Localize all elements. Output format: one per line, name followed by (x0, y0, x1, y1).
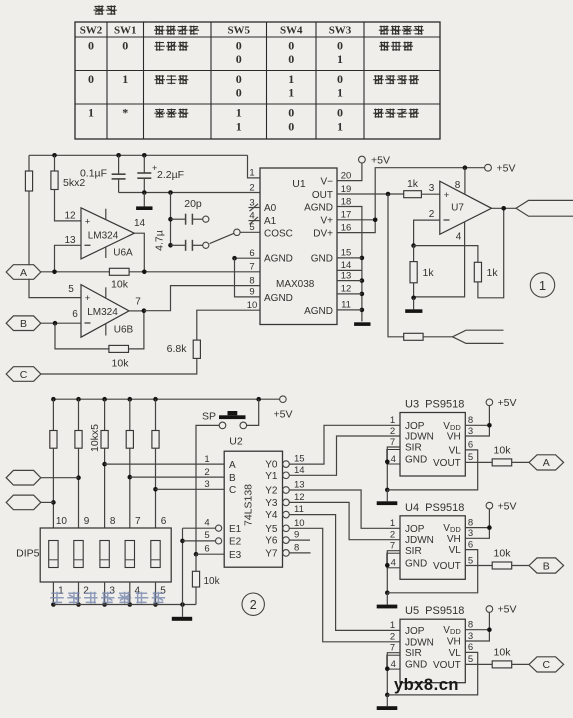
wire lower ground rail (53, 602, 196, 607)
svg-text:DV+: DV+ (313, 228, 333, 239)
resistor 10k (U3 output) (492, 444, 512, 466)
svg-text:VDD: VDD (443, 421, 461, 432)
input connector (blank, lower) (6, 495, 53, 510)
svg-text:18: 18 (341, 196, 352, 207)
svg-text:0: 0 (88, 72, 94, 86)
resistor R11 (10kx5 group) (75, 399, 82, 528)
U4 pin 1 number (390, 518, 395, 529)
svg-text:19: 19 (341, 184, 352, 195)
svg-text:SW1: SW1 (114, 25, 137, 37)
U1 pin 1 number (249, 168, 254, 179)
svg-text:VDD: VDD (443, 523, 461, 534)
svg-text:5: 5 (204, 530, 209, 541)
svg-text:2: 2 (204, 467, 209, 478)
svg-text:6: 6 (72, 309, 78, 320)
U1 pin 12 number (341, 284, 352, 295)
svg-text:14: 14 (294, 465, 305, 476)
svg-text:4: 4 (391, 558, 396, 569)
truth table grid (75, 22, 440, 139)
U5 pin 8 number (468, 620, 473, 631)
U4 pin 6 number (468, 539, 473, 550)
wire U1 pin 18 / ground bus (337, 207, 364, 322)
svg-text:0: 0 (337, 72, 343, 86)
svg-text:1k: 1k (407, 178, 419, 190)
svg-text:8: 8 (468, 415, 473, 426)
U1 pin 3 stub (249, 204, 261, 211)
svg-text:SW5: SW5 (227, 25, 250, 37)
svg-text:VL: VL (449, 545, 462, 556)
svg-text:JDWN: JDWN (405, 637, 434, 648)
svg-text:SW3: SW3 (329, 25, 352, 37)
wire U4 VDD,VH to +5V (465, 509, 491, 538)
U2 pin 3 number (204, 479, 209, 490)
U2 pin 15 number (294, 454, 305, 465)
capacitor C4 4.7µ (154, 230, 209, 251)
svg-text:1: 1 (337, 120, 343, 134)
svg-text:A1: A1 (264, 216, 277, 227)
power terminal +5V (U4) (486, 500, 516, 512)
DIP pin 9 number (84, 516, 90, 527)
wire 10k to connector B (512, 565, 529, 567)
svg-text:7: 7 (135, 516, 141, 527)
svg-text:1: 1 (539, 278, 546, 293)
svg-text:14: 14 (134, 218, 146, 229)
svg-text:E3: E3 (229, 550, 242, 561)
U4 pin 8 number (468, 517, 473, 528)
svg-text:3: 3 (429, 183, 435, 194)
svg-text:VL: VL (449, 648, 462, 659)
wire U1 pin 6 AGND tie to pin 9 (232, 256, 260, 297)
svg-text:GND: GND (311, 254, 333, 265)
svg-text:1: 1 (58, 586, 64, 597)
wire U1 pin 14 stub (337, 269, 362, 271)
svg-text:Y4: Y4 (265, 510, 278, 521)
U2 pin 1 number (204, 454, 209, 465)
wire rail2 to U1 pin 2 (119, 190, 260, 195)
svg-text:3: 3 (109, 586, 115, 597)
wire R5 to node C (41, 358, 197, 374)
svg-text:6: 6 (468, 539, 473, 550)
resistor 10k (U5 output) (492, 646, 512, 668)
svg-text:ybx8.cn: ybx8.cn (394, 676, 459, 694)
op-amp U6A LM324 (81, 208, 134, 259)
svg-text:7: 7 (390, 437, 395, 448)
IC U4 PS9518 (400, 516, 465, 580)
svg-text:AGND: AGND (304, 202, 333, 213)
svg-text:2: 2 (390, 530, 395, 541)
svg-text:SIR: SIR (405, 648, 422, 659)
label U6A (113, 248, 133, 259)
svg-text:6: 6 (468, 440, 473, 451)
label DIP5 (16, 548, 40, 560)
wire U3 SIR/GND tie (385, 447, 400, 492)
table title 附表 (94, 5, 117, 15)
wire node A feed line to U1 pin 7 (41, 270, 260, 275)
U1 pin 19 number (341, 184, 352, 195)
svg-text:U6A: U6A (113, 248, 133, 259)
svg-text:12: 12 (64, 210, 76, 221)
U5 pin 4 number (framed) (387, 655, 400, 670)
node circle 2 (242, 593, 264, 615)
resistor R3 10k (U6A feedback) (109, 268, 129, 290)
U4 pin 2 number (390, 530, 395, 541)
svg-text:+5V: +5V (498, 397, 517, 409)
svg-text:1: 1 (390, 620, 395, 631)
svg-text:2: 2 (390, 426, 395, 437)
svg-text:12: 12 (341, 284, 352, 295)
resistor R13 (10kx5 group) (126, 399, 133, 528)
svg-text:7: 7 (135, 297, 141, 308)
svg-text:A: A (543, 457, 550, 469)
svg-text:6.8k: 6.8k (167, 343, 188, 355)
IC U2 74LS138 (224, 451, 282, 567)
svg-text:V+: V+ (320, 216, 333, 227)
wire B to U6B inverting input (41, 321, 81, 326)
U2 pin 14 number (294, 465, 305, 476)
U1 pin 16 number (341, 222, 352, 233)
resistor R5 6.8k (167, 340, 201, 358)
wire U4 SIR/GND tie (385, 551, 400, 595)
U1 pin 3 number (249, 197, 254, 208)
wire SP to E3 node (194, 425, 220, 556)
svg-text:6: 6 (161, 516, 167, 527)
svg-text:+5V: +5V (371, 155, 390, 167)
svg-text:11: 11 (341, 300, 351, 311)
U2 output Y6 bubble (265, 536, 289, 547)
U1 pin 13 number (341, 270, 352, 281)
wire DIP column to ground rail (153, 582, 158, 607)
svg-text:LM324: LM324 (88, 231, 119, 242)
svg-text:8: 8 (455, 180, 461, 191)
U3 pin 4 number (framed) (387, 450, 400, 465)
wire U2 E2 (183, 538, 222, 544)
svg-text:7: 7 (249, 262, 254, 273)
wire Y0 to U3 pin 1 (289, 425, 400, 464)
pin 13 label (64, 235, 76, 246)
svg-text:6: 6 (204, 543, 209, 554)
svg-text:1: 1 (236, 120, 242, 134)
svg-text:10k: 10k (494, 548, 512, 560)
svg-text:10k: 10k (494, 646, 512, 658)
resistor R14 (10kx5 group) (152, 399, 159, 528)
svg-text:U2: U2 (229, 436, 243, 448)
U1 pin 7 number (249, 262, 254, 273)
ground (U1 bus) (354, 322, 370, 326)
svg-text:+5V: +5V (498, 604, 517, 616)
U2 output Y0 bubble (265, 460, 289, 471)
svg-text:Y3: Y3 (265, 498, 278, 509)
svg-text:AGND: AGND (304, 306, 333, 317)
svg-text:1: 1 (288, 72, 294, 86)
wire U3 VOUT (465, 461, 492, 463)
svg-text:7: 7 (390, 541, 395, 552)
ground (U4) (377, 593, 398, 609)
svg-text:0: 0 (337, 106, 343, 120)
label U3 PS9518 (405, 399, 464, 411)
svg-text:JDWN: JDWN (405, 535, 434, 546)
table header row (80, 25, 424, 37)
wire DIP column to ground rail (51, 582, 56, 607)
svg-text:0: 0 (122, 39, 128, 53)
label U5 PS9518 (405, 605, 464, 617)
DIP pin 2 number (83, 586, 89, 597)
wire U5 VL to ground (387, 652, 477, 695)
power terminal +5V (U3) (486, 397, 516, 409)
svg-text:20p: 20p (184, 198, 202, 210)
label U4 PS9518 (405, 502, 464, 514)
U2 output Y1 bubble (265, 471, 289, 482)
svg-text:U1: U1 (292, 178, 306, 190)
svg-text:1: 1 (390, 415, 395, 426)
svg-text:+: + (444, 190, 450, 201)
svg-text:U4 PS9518: U4 PS9518 (405, 502, 464, 514)
svg-text:+: + (85, 217, 91, 228)
DIP pin 7 number (135, 516, 141, 527)
op-amp U7 (440, 181, 492, 234)
svg-text:5: 5 (68, 284, 74, 295)
wire Y5 to U5 pin 2 (289, 528, 400, 642)
svg-text:8: 8 (468, 517, 473, 528)
svg-text:V−: V− (320, 176, 333, 187)
resistor R2 5kx2 (51, 155, 85, 221)
svg-text:11: 11 (294, 504, 304, 515)
svg-text:0: 0 (88, 39, 94, 53)
wire U7 pin 2 node (411, 220, 439, 248)
wire Y7 stub (289, 552, 311, 554)
svg-text:7: 7 (390, 643, 395, 654)
wire Y1 to U3 pin 2 (289, 436, 400, 475)
U5 pin 2 number (390, 632, 395, 643)
svg-text:VOUT: VOUT (433, 660, 461, 671)
U2 pin 11 number (294, 504, 304, 515)
wire U6A inverting input (55, 245, 82, 271)
pin 6 label (72, 309, 78, 320)
U3 pin 6 number (468, 440, 473, 451)
U2 pin 8 number (294, 542, 299, 553)
svg-text:17: 17 (341, 210, 352, 221)
U3 pin 8 number (468, 415, 473, 426)
U1 pin 11 number (341, 300, 351, 311)
svg-text:LM324: LM324 (87, 307, 118, 318)
U2 pin 6 number (204, 543, 209, 554)
U7 pin 3 label (429, 183, 435, 194)
svg-text:1: 1 (236, 106, 242, 120)
svg-text:12: 12 (294, 492, 305, 503)
wire Y6 stub (289, 539, 310, 541)
table row 1 (88, 39, 413, 67)
U2 output Y4 bubble (265, 510, 289, 521)
svg-text:6: 6 (249, 248, 254, 259)
U3 pin 5 number (468, 452, 473, 463)
wire U2 E3 (196, 553, 224, 555)
svg-text:*: * (122, 106, 128, 120)
svg-text:OUT: OUT (312, 190, 333, 201)
svg-text:9: 9 (249, 287, 254, 298)
wire U1 pins 16,17 to +5V (U7) (337, 165, 485, 232)
DIP pin 1 number (58, 586, 64, 597)
capacitor C2 2.2µF (polar) (137, 155, 184, 192)
svg-text:9: 9 (294, 530, 299, 541)
svg-text:8: 8 (294, 542, 299, 553)
svg-text:2: 2 (249, 182, 254, 193)
capacitor C1 0.1µF (80, 155, 126, 192)
U2 pin 10 number (294, 518, 305, 529)
switch arm (cap select) (210, 229, 260, 244)
wire U2 E1 (183, 525, 222, 531)
svg-text:Y2: Y2 (265, 486, 278, 497)
svg-text:VL: VL (449, 445, 462, 456)
svg-text:2: 2 (83, 586, 89, 597)
svg-text:JOP: JOP (405, 626, 425, 637)
U1 pin 15 number (341, 248, 352, 259)
DIP pin 3 number (109, 586, 115, 597)
svg-text:U5 PS9518: U5 PS9518 (405, 605, 464, 617)
svg-text:SP: SP (202, 410, 216, 422)
U1 pin 5 number (249, 222, 254, 233)
wire DIP column to ground rail (102, 582, 107, 607)
svg-text:A: A (229, 460, 236, 471)
svg-text:5: 5 (468, 452, 473, 463)
U3 pin 3 number (468, 426, 473, 437)
svg-text:1: 1 (390, 518, 395, 529)
U4 pin 5 number (468, 555, 473, 566)
label U6B (114, 325, 134, 336)
capacitor C3 20p (171, 198, 209, 225)
svg-text:10k: 10k (112, 358, 130, 370)
pin 14 label (134, 218, 146, 229)
wire R6 to U7 pin 3 (421, 193, 439, 195)
svg-text:3: 3 (468, 426, 473, 437)
svg-text:0: 0 (288, 39, 294, 53)
wire SP to +5V rail (247, 399, 259, 425)
svg-text:COSC: COSC (264, 229, 293, 240)
U1 pin 8 number (249, 275, 254, 286)
svg-text:3: 3 (468, 528, 473, 539)
svg-text:U7: U7 (451, 203, 464, 214)
svg-text:VOUT: VOUT (433, 458, 461, 469)
svg-text:13: 13 (294, 480, 305, 491)
svg-text:AGND: AGND (264, 293, 293, 304)
svg-text:VOUT: VOUT (433, 561, 461, 572)
ground (U5) (377, 695, 398, 710)
svg-text:Y0: Y0 (265, 460, 278, 471)
power terminal +5V (U7) (485, 163, 516, 175)
wire U4 VL to ground (387, 550, 477, 593)
wire rail to U1 pin 1 (248, 155, 261, 178)
svg-text:0: 0 (236, 72, 242, 86)
wire 10k to connector C (512, 663, 529, 665)
wire U1 pin 11 (337, 309, 362, 311)
svg-text:10: 10 (56, 516, 68, 527)
resistor R6 1k (U7 input) (404, 178, 422, 198)
U3 pin 7 number (390, 437, 395, 448)
resistor R1 (left, unlabeled) (25, 155, 32, 265)
U4 pin 7 number (390, 541, 395, 552)
push button SP (202, 410, 247, 428)
svg-text:1: 1 (337, 86, 343, 100)
svg-text:Y6: Y6 (265, 536, 278, 547)
svg-text:9: 9 (84, 516, 90, 527)
svg-text:VH: VH (447, 637, 461, 648)
svg-text:2.2µF: 2.2µF (157, 169, 184, 181)
node C input connector (6, 367, 41, 382)
node A input connector (6, 265, 41, 280)
ground (U7) (405, 298, 422, 313)
svg-text:VDD: VDD (443, 625, 461, 636)
wire U3 VDD,VH to +5V (465, 406, 491, 436)
U4 pin 4 number (framed) (387, 553, 400, 568)
svg-text:5: 5 (468, 654, 473, 665)
svg-text:SW2: SW2 (80, 25, 103, 37)
svg-text:B: B (20, 318, 27, 330)
DIP switch S1 DIP5 (40, 528, 171, 582)
wire U3 VL to ground (387, 450, 477, 490)
svg-text:0: 0 (337, 39, 343, 53)
svg-text:6: 6 (468, 642, 473, 653)
svg-text:15: 15 (294, 454, 305, 465)
table row 3 (88, 106, 419, 134)
resistor R8 1k (U7 feedback) (414, 208, 504, 297)
U1 pin 2 number (249, 182, 254, 193)
wire U1 pin 12 (337, 293, 362, 295)
svg-text:1: 1 (204, 454, 209, 465)
svg-text:GND: GND (405, 660, 427, 671)
wire Y3 to U4 pin 2 (289, 502, 400, 539)
U2 output Y3 bubble (265, 498, 289, 509)
node A output connector (529, 455, 564, 470)
node B input connector (6, 316, 41, 331)
svg-text:3: 3 (468, 631, 473, 642)
U7 pin 8 (V+) (455, 168, 465, 195)
output connector (lower) (453, 330, 504, 343)
U7 pin 4 (V-) (414, 222, 465, 297)
U5 pin 1 number (390, 620, 395, 631)
output connector (upper) (516, 200, 573, 216)
U7 pin 2 label (429, 209, 435, 220)
svg-text:74LS138: 74LS138 (243, 484, 255, 526)
svg-text:C: C (229, 485, 236, 496)
svg-text:0: 0 (236, 52, 242, 66)
pin 12 label (64, 210, 76, 221)
svg-text:SIR: SIR (405, 443, 422, 454)
U3 pin 1 number (390, 415, 395, 426)
svg-text:Y5: Y5 (265, 524, 278, 535)
wire U5 SIR/GND tie (385, 653, 400, 698)
svg-text:8: 8 (249, 275, 254, 286)
resistor R9 (unlabeled) (404, 333, 423, 340)
wire U4 VOUT (465, 565, 492, 567)
svg-text:16: 16 (341, 222, 352, 233)
svg-text:SIR: SIR (405, 546, 422, 557)
svg-text:E1: E1 (229, 524, 242, 535)
resistor R7 1k (to ground) (410, 246, 434, 301)
U5 pin 7 number (390, 643, 395, 654)
table row 2 (88, 72, 419, 100)
svg-text:10k: 10k (204, 576, 221, 587)
wire capacitor select column (168, 193, 173, 248)
wire OUT to lower connector (388, 194, 404, 337)
wire DIP column to ground rail (128, 582, 133, 607)
svg-text:13: 13 (64, 235, 76, 246)
svg-text:U3 PS9518: U3 PS9518 (405, 399, 464, 411)
wire U6B output to U1 pin 8 (129, 286, 260, 313)
svg-text:8: 8 (110, 516, 116, 527)
svg-text:B: B (543, 560, 550, 572)
node B output connector (529, 558, 564, 573)
wire U1 pin 13 (337, 280, 362, 282)
wire A to U6B non-inverting input (29, 279, 81, 298)
IC U1 MAX038 (260, 168, 337, 325)
